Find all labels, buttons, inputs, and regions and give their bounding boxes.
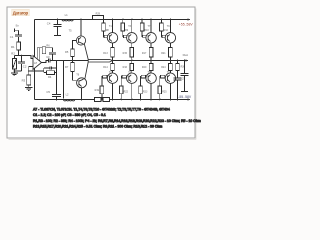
- node collector T4 on bottom rail: [131, 99, 133, 101]
- wire R2 to ground node: [13, 69, 15, 71]
- transistor T3: [127, 33, 137, 43]
- resistor R15: [130, 48, 134, 58]
- resistor R8: [102, 23, 106, 31]
- svg-text:A7 - TL087CN, TL071CN. T1,T4: A7 - TL087CN, TL071CN. T1,T4,T6,T8,T10 -…: [33, 108, 170, 112]
- resistor R19: [100, 86, 104, 94]
- capacitor C10: [181, 61, 189, 92]
- node collector T3 on rail: [131, 19, 133, 21]
- wire upper drive line: [88, 59, 112, 60]
- wire R10 to base of T7: [142, 31, 146, 37]
- resistor R26: [176, 64, 180, 71]
- node top rail tap R8: [103, 19, 105, 21]
- wire ground join: [14, 70, 21, 72]
- node top rail tap R12: [161, 19, 163, 21]
- node column 2 on output rail: [131, 60, 133, 62]
- svg-text:R7: R7: [65, 65, 69, 69]
- svg-text:C1 - 2.2; C2 - 100 pF; C3 - 33: C1 - 2.2; C2 - 100 pF; C3 - 330 pF; C4, …: [33, 113, 106, 117]
- resistor R23: [139, 86, 143, 94]
- wire rail to R12: [160, 20, 162, 24]
- photo frame: [7, 7, 196, 140]
- wire R21 to output rail: [169, 57, 171, 61]
- resistor R4 feedback: [44, 72, 56, 74]
- svg-text:Датагор: Датагор: [13, 10, 29, 15]
- svg-text:L1: L1: [65, 13, 69, 17]
- node C9 on bottom rail: [177, 99, 179, 101]
- wire output rail to R16: [131, 61, 133, 64]
- output stage column 4 bottom: transistor T10: [158, 61, 176, 101]
- wire emitter T4: [131, 71, 133, 73]
- node C2 junction: [21, 55, 23, 57]
- inductor L1: [62, 20, 73, 21]
- svg-text:R1,R3 - 100; R2 - 39k; R4 - 10: R1,R3 - 100; R2 - 39k; R4 - 100k; P4 - 2…: [33, 119, 201, 123]
- node collector T8 on bottom rail: [150, 99, 152, 101]
- resistor base T2: [103, 75, 107, 78]
- node T5 collector tap: [80, 19, 82, 21]
- resistor R5: [71, 49, 75, 57]
- ground R3: [25, 85, 32, 91]
- page background: [0, 0, 204, 150]
- wire T6 emitter: [85, 59, 88, 78]
- wire input node line: [14, 56, 33, 59]
- node +V arrow: [187, 18, 190, 20]
- resistor R14: [111, 63, 115, 70]
- wire collector T8: [150, 83, 152, 99]
- svg-text:R25: R25: [162, 91, 167, 94]
- wire input to C1: [18, 30, 20, 35]
- wire T5 base: [73, 41, 77, 50]
- transistor T4: [127, 73, 137, 83]
- output stage column 3 top: transistor T7: [140, 19, 156, 62]
- output stage column 2 top: transistor T3: [121, 19, 137, 62]
- svg-text:R17: R17: [142, 52, 147, 55]
- transistor T2: [107, 73, 117, 83]
- resistor R17: [149, 48, 153, 58]
- output stage column 1 bottom: transistor T2: [95, 61, 118, 101]
- capacitor C3: [49, 59, 50, 63]
- wire bottom rail: [35, 99, 189, 101]
- node C10 tap on output rail: [184, 60, 186, 62]
- wire lower drive line: [88, 61, 112, 63]
- capacitor C1: [15, 35, 22, 37]
- svg-text:R15: R15: [123, 52, 128, 55]
- output stage column 3 bottom: transistor T8: [139, 61, 157, 101]
- svg-text:R19: R19: [95, 89, 100, 92]
- resistor R25: [158, 86, 162, 94]
- transistor T6: [77, 78, 87, 88]
- wire feedback tap: [29, 70, 44, 72]
- transistor T7: [146, 33, 156, 43]
- wire emitter T3: [131, 43, 133, 48]
- svg-text:C4: C4: [47, 22, 51, 26]
- output stage column 4 top: transistor T9: [160, 19, 176, 62]
- wire collector T10: [169, 83, 171, 99]
- wire base T4 to R22: [121, 77, 127, 86]
- wire T5 collector: [80, 20, 82, 36]
- node ground join: [14, 70, 16, 72]
- wire C1 to R1: [18, 37, 20, 42]
- wire emitter T2: [112, 71, 114, 73]
- wire output line to L2: [63, 61, 65, 99]
- svg-text:C5: C5: [46, 90, 50, 94]
- wire R22 to bottom rail: [120, 94, 122, 100]
- resistor R10: [140, 23, 144, 31]
- wire output rail to R14: [112, 61, 114, 64]
- transistor T10: [165, 73, 175, 83]
- svg-text:C2: C2: [23, 65, 27, 69]
- wire rail to R9: [122, 20, 124, 24]
- node column 1 on output rail: [112, 60, 114, 62]
- transistor T8: [146, 73, 156, 83]
- resistor R1: [17, 42, 21, 50]
- svg-text:R16: R16: [123, 66, 128, 69]
- svg-text:R20: R20: [142, 66, 147, 69]
- wire R17 to output rail: [150, 57, 152, 61]
- svg-text:R23: R23: [143, 91, 148, 94]
- wire rail to R8: [103, 20, 105, 24]
- wire emitter T1: [112, 43, 114, 48]
- svg-text:R5: R5: [65, 50, 69, 54]
- svg-text:R6: R6: [46, 43, 50, 47]
- wire collector T1: [112, 20, 114, 33]
- wire base T2 to R19: [102, 77, 108, 86]
- wire feedback left node: [43, 68, 45, 73]
- wire rail to R10: [141, 20, 143, 24]
- resistor base T9: [162, 35, 166, 38]
- wire R8 to base of T1: [104, 31, 108, 37]
- resistor R30 rail: [95, 97, 102, 101]
- node -V arrow: [187, 98, 190, 100]
- transistor T5: [76, 36, 85, 45]
- wire output rail to R26: [177, 61, 179, 64]
- resistor R9: [121, 23, 125, 31]
- resistor R24: [169, 63, 173, 70]
- wire R9 to base of T3: [123, 31, 127, 37]
- node column 3 on output rail: [150, 60, 152, 62]
- svg-text:R12: R12: [164, 29, 169, 32]
- op-amp A7: [33, 56, 42, 70]
- wire op-amp output: [42, 61, 49, 63]
- wire T5 emitter: [84, 44, 88, 60]
- wire T6 collector: [81, 88, 83, 100]
- resistor base T3: [123, 35, 127, 38]
- wire collector T9: [169, 20, 171, 33]
- wire top rail: [35, 19, 189, 21]
- ground input stage: [11, 71, 18, 76]
- node top rail tap R9: [122, 19, 124, 21]
- node zobel tap on output rail: [177, 60, 179, 62]
- wire emitter T10: [169, 71, 171, 73]
- svg-text:R22: R22: [124, 91, 129, 94]
- wire R23 to bottom rail: [140, 94, 142, 100]
- output stage column 2 bottom: transistor T4: [119, 61, 137, 101]
- wire collector T4: [131, 83, 133, 99]
- resistor R13: [111, 48, 115, 58]
- transistor T1: [107, 33, 117, 43]
- svg-text:R3: R3: [22, 78, 26, 82]
- node feedback junction: [28, 70, 30, 72]
- resistor base T8: [141, 75, 145, 78]
- capacitor C7 bypass: [49, 48, 56, 60]
- wire output rail to R24: [169, 61, 171, 64]
- wire emitter T7: [150, 43, 152, 48]
- wire R25 to bottom rail: [159, 94, 161, 100]
- wire feedback right node to output line: [56, 61, 58, 73]
- svg-text:R10: R10: [144, 29, 149, 32]
- svg-text:C3: C3: [46, 55, 50, 59]
- node base chain column 4 on bottom rail: [159, 99, 161, 101]
- node collector T7 on rail: [150, 19, 152, 21]
- wire base T10 to R25: [160, 77, 166, 86]
- node collector T2 on bottom rail: [112, 99, 114, 101]
- node top rail tap R10: [141, 19, 143, 21]
- wire R5 to R7: [72, 57, 74, 63]
- capacitor C6 feedback: [44, 66, 57, 69]
- resistor R31 rail: [103, 97, 110, 101]
- resistor R21: [169, 48, 173, 58]
- input terminal: [14, 29, 18, 32]
- resistor base T1: [104, 35, 108, 38]
- resistor R7: [71, 63, 75, 72]
- watermark logo: [12, 9, 29, 16]
- capacitor C9: [174, 71, 182, 100]
- wire R1 to input node: [18, 50, 20, 56]
- resistor R12: [160, 23, 164, 31]
- node collector T10 on bottom rail: [170, 99, 172, 101]
- node column 4 on output rail: [170, 60, 172, 62]
- node Out arrow: [185, 59, 188, 61]
- svg-text:C1: C1: [10, 35, 14, 39]
- svg-text:Out: Out: [183, 53, 188, 57]
- wire T6 base: [73, 72, 77, 81]
- node driver tap: [72, 60, 74, 62]
- svg-text:+55..58V: +55..58V: [179, 23, 194, 27]
- transistor T9: [165, 33, 175, 43]
- svg-text:R2: R2: [11, 52, 15, 56]
- node base chain column 3 on bottom rail: [140, 99, 142, 101]
- resistor base T4: [122, 75, 126, 78]
- resistor R22: [119, 86, 123, 94]
- capacitor C5: [56, 99, 58, 101]
- node collector T1 on rail: [112, 19, 114, 21]
- node base chain column 2 on bottom rail: [120, 99, 122, 101]
- node base chain column 1 on bottom rail: [101, 99, 103, 101]
- node feedback on output: [56, 60, 58, 62]
- resistor base T7: [143, 35, 147, 38]
- wire base T8 to R23: [141, 77, 147, 86]
- resistor R16: [130, 63, 134, 70]
- svg-text:R29: R29: [96, 12, 101, 15]
- svg-text:A7: A7: [34, 61, 38, 65]
- wire inverting input: [29, 67, 33, 72]
- wire op-amp supply pins: [37, 48, 52, 61]
- resistor base T10: [161, 75, 165, 78]
- wire left bus bracket: [34, 20, 36, 100]
- svg-text:-55..58V: -55..58V: [178, 95, 192, 99]
- output stage column 1 top: transistor T1: [102, 19, 118, 62]
- resistor R3: [28, 71, 30, 75]
- svg-text:R13,R15,R17,R20,R21,R24,R25 -: R13,R15,R17,R20,R21,R24,R25 - 0.51 Ohm; …: [33, 125, 162, 129]
- node R1 junction: [18, 55, 20, 57]
- svg-text:R24: R24: [161, 66, 166, 69]
- wire output rail to R20: [150, 61, 152, 64]
- resistor R20: [149, 63, 153, 70]
- wire emitter T9: [169, 43, 171, 48]
- wire collector T3: [131, 20, 133, 33]
- svg-text:R14: R14: [103, 66, 108, 69]
- svg-text:R13: R13: [103, 52, 108, 55]
- wire R15 to output rail: [131, 57, 133, 61]
- capacitor C4: [54, 20, 62, 36]
- wire output line: [50, 60, 186, 62]
- potentiometer R2: [13, 56, 15, 59]
- capacitor C2: [18, 56, 25, 72]
- wire emitter T8: [150, 71, 152, 73]
- resistor R6: [42, 47, 46, 54]
- wire R12 to base of T9: [161, 31, 165, 37]
- resistor R29 rail: [93, 16, 104, 20]
- svg-text:R1: R1: [11, 45, 15, 49]
- svg-text:R21: R21: [161, 52, 166, 55]
- component list text: [33, 108, 201, 129]
- wire R19 to bottom rail: [101, 94, 103, 100]
- node collector T9 on rail: [170, 19, 172, 21]
- node C4 tap: [57, 19, 59, 21]
- node T6 collector rail: [81, 99, 83, 101]
- wire R13 to output rail: [112, 57, 114, 61]
- wire collector T7: [150, 20, 152, 33]
- svg-text:R4: R4: [48, 75, 52, 79]
- wire collector T2: [112, 83, 114, 99]
- inductor L2: [64, 100, 75, 101]
